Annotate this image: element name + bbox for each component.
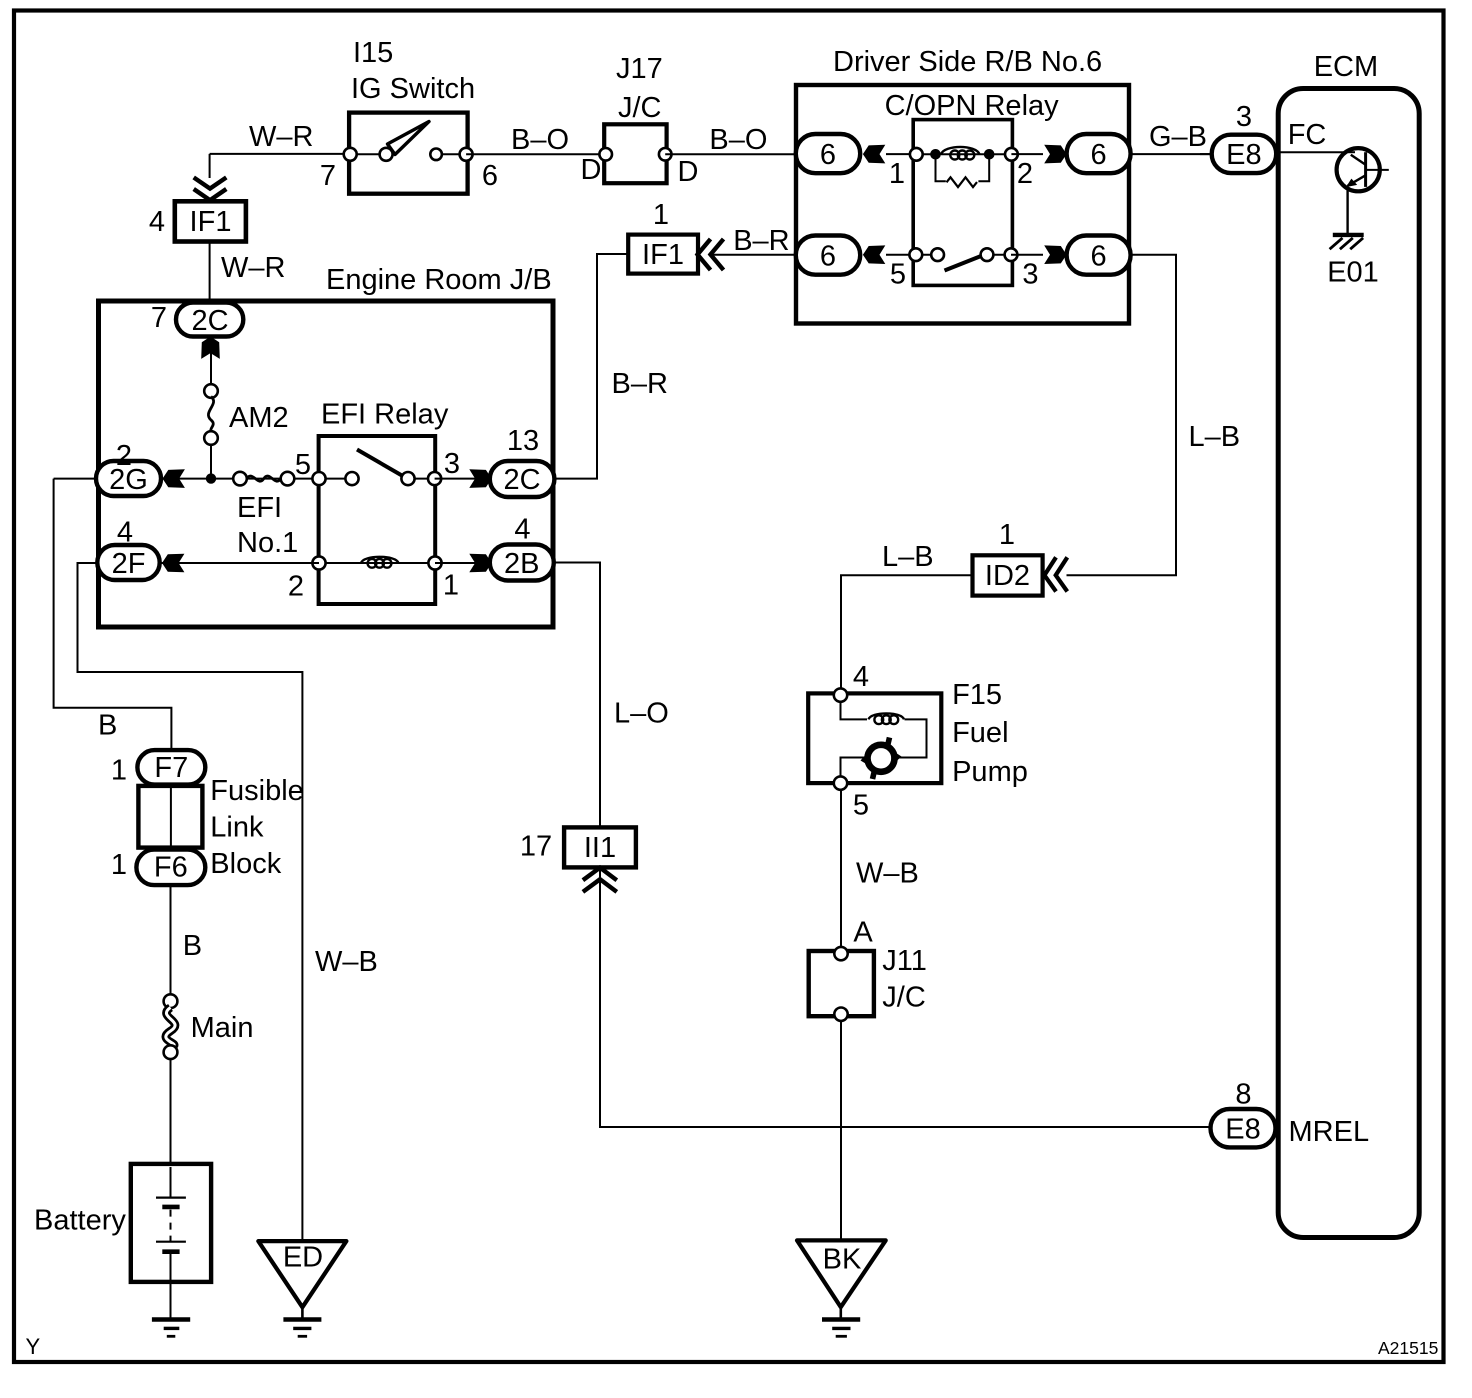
- connector 6 (bottom left): [796, 236, 860, 275]
- svg-text:F6: F6: [154, 852, 188, 884]
- Engine Room J/B box: [99, 264, 554, 627]
- svg-text:I15: I15: [353, 37, 393, 69]
- svg-text:J11: J11: [882, 945, 927, 977]
- svg-text:Block: Block: [210, 848, 281, 880]
- svg-text:IF1: IF1: [642, 239, 684, 271]
- arrow into 2B: [469, 554, 491, 573]
- svg-text:BK: BK: [823, 1244, 862, 1276]
- svg-text:2: 2: [288, 571, 304, 603]
- svg-text:1: 1: [111, 849, 127, 881]
- connector 2C pin 13: [490, 425, 555, 497]
- svg-text:3: 3: [444, 448, 460, 480]
- relay C/OPN Relay: [885, 90, 1060, 285]
- arrow into 6 bottom-right: [1044, 245, 1066, 264]
- wire L-B from relay to ID2: [1067, 255, 1177, 576]
- svg-text:J/C: J/C: [618, 92, 662, 124]
- svg-text:5: 5: [853, 790, 869, 822]
- svg-text:Engine Room J/B: Engine Room J/B: [326, 264, 552, 296]
- wire J11 to BK: [840, 1021, 842, 1241]
- arrow up into 2C: [201, 337, 220, 359]
- wire W-B from 2F to ED: [78, 563, 303, 1241]
- wire W-B pump to J11: [840, 790, 842, 947]
- wire arrow to coil pin 1: [886, 153, 916, 155]
- arrow into 6 top-right: [1044, 145, 1066, 164]
- svg-text:D: D: [581, 154, 602, 186]
- svg-text:E8: E8: [1225, 1114, 1260, 1146]
- connector IF1 pin 1 with chevrons: [628, 199, 723, 274]
- fuse EFI No.1: [233, 472, 298, 559]
- connector F7: [111, 750, 205, 786]
- wire relay pin1 to 2B: [435, 562, 490, 564]
- arrow into 2G: [163, 469, 185, 488]
- svg-text:ID2: ID2: [985, 560, 1030, 592]
- connector ID2 pin 1 with chevrons: [973, 519, 1068, 596]
- svg-text:5: 5: [295, 449, 311, 481]
- svg-text:B–R: B–R: [733, 225, 789, 257]
- wire 2G row: [54, 478, 319, 480]
- transistor FC driver: [1337, 148, 1389, 233]
- component F15 Fuel Pump: [808, 661, 1028, 822]
- coil circuit top row: [889, 147, 1033, 190]
- wire AM2 to junction: [210, 445, 212, 479]
- wire B-O J17 to relay block: [665, 153, 796, 155]
- svg-text:Driver Side R/B No.6: Driver Side R/B No.6: [833, 46, 1102, 78]
- svg-text:II1: II1: [584, 832, 616, 864]
- wire FC to transistor: [1280, 151, 1352, 153]
- svg-text:Y: Y: [26, 1334, 41, 1359]
- relay EFI Relay: [288, 399, 460, 605]
- connector E8 pin 8 MREL: [1211, 1079, 1370, 1149]
- svg-text:B–O: B–O: [709, 124, 767, 156]
- component Fusible Link Block: [138, 775, 303, 880]
- fuse AM2: [204, 384, 288, 445]
- svg-text:2: 2: [116, 440, 132, 472]
- arrow into 2C right: [469, 469, 491, 488]
- ECM box: [1278, 51, 1419, 1238]
- svg-text:W–B: W–B: [856, 858, 919, 890]
- svg-text:17: 17: [520, 831, 552, 863]
- svg-text:F15: F15: [952, 679, 1002, 711]
- svg-text:F7: F7: [154, 752, 188, 784]
- svg-text:G–B: G–B: [1149, 121, 1207, 153]
- wire arrow to switch pin5: [886, 254, 916, 256]
- connector E8 pin 3: [1200, 101, 1276, 173]
- connector 2C pin 7 (top): [151, 302, 243, 337]
- svg-text:ED: ED: [283, 1242, 323, 1274]
- connector 6 (top left): [796, 134, 860, 173]
- svg-text:E8: E8: [1226, 139, 1261, 171]
- wire W-R from IF1 riser to IG switch pin 7: [210, 154, 344, 178]
- wire L-O from 2B to II1 and MREL to E8: [554, 563, 1211, 1128]
- svg-text:MREL: MREL: [1289, 1116, 1370, 1148]
- connector 2G pin 2: [96, 440, 161, 496]
- svg-text:Link: Link: [210, 812, 264, 844]
- svg-text:6: 6: [820, 139, 836, 171]
- wire B from 2G to fusible link: [54, 479, 172, 751]
- relay block Driver Side R/B No.6: [796, 46, 1129, 324]
- svg-text:A: A: [853, 917, 873, 949]
- junction connector J17 J/C: [581, 53, 699, 188]
- svg-text:W–R: W–R: [221, 252, 285, 284]
- svg-text:W–R: W–R: [249, 121, 313, 153]
- svg-text:EFI Relay: EFI Relay: [321, 399, 449, 431]
- svg-text:Battery: Battery: [34, 1205, 126, 1237]
- svg-text:3: 3: [1236, 101, 1252, 133]
- svg-text:Main: Main: [191, 1012, 254, 1044]
- svg-text:B–O: B–O: [511, 124, 569, 156]
- svg-text:1: 1: [889, 158, 905, 190]
- svg-text:2B: 2B: [504, 548, 539, 580]
- wire W-R IF1 down to 2C: [209, 242, 211, 306]
- svg-text:7: 7: [320, 160, 336, 192]
- arrow into 2F: [162, 554, 184, 573]
- svg-text:4: 4: [149, 206, 165, 238]
- svg-text:1: 1: [999, 519, 1015, 551]
- ground symbol ED: [258, 1241, 346, 1336]
- svg-text:A21515: A21515: [1378, 1338, 1438, 1358]
- wire 2C to AM2: [210, 352, 212, 385]
- wire relay pin3 to 2C: [435, 478, 490, 480]
- svg-text:Fuel: Fuel: [952, 717, 1008, 749]
- svg-text:1: 1: [653, 199, 669, 231]
- svg-text:EFI: EFI: [237, 492, 282, 524]
- svg-text:6: 6: [1091, 241, 1107, 273]
- connector IF1 pin 4 with chevrons: [149, 177, 246, 241]
- svg-text:W–B: W–B: [315, 946, 378, 978]
- svg-text:2C: 2C: [191, 305, 228, 337]
- svg-text:4: 4: [117, 517, 133, 549]
- svg-text:L–B: L–B: [1189, 421, 1241, 453]
- wire L-B ID2 to fuel pump: [841, 575, 973, 689]
- svg-text:2F: 2F: [112, 548, 146, 580]
- svg-text:C/OPN Relay: C/OPN Relay: [885, 90, 1060, 122]
- svg-text:4: 4: [853, 661, 869, 693]
- wire switch pin3 to 6 oval: [1011, 254, 1043, 256]
- svg-text:B: B: [98, 710, 117, 742]
- wire G-B to ECM E8: [1131, 153, 1212, 155]
- svg-text:L–B: L–B: [882, 541, 934, 573]
- wire coil pin2 to 6 oval: [1011, 153, 1043, 155]
- svg-text:1: 1: [111, 755, 127, 787]
- ground battery: [152, 1320, 190, 1337]
- ground symbol BK: [797, 1240, 886, 1336]
- battery: [34, 1164, 211, 1318]
- svg-text:2C: 2C: [503, 464, 540, 496]
- connector 6 (bottom right): [1067, 236, 1131, 275]
- svg-text:D: D: [678, 156, 699, 188]
- arrow into 6 bottom-left: [863, 245, 885, 264]
- connector II1 pin 17 with chevrons: [520, 827, 636, 892]
- svg-text:B: B: [183, 930, 202, 962]
- svg-text:No.1: No.1: [237, 527, 298, 559]
- svg-text:E01: E01: [1327, 257, 1379, 289]
- wire B-R chevron to relay block: [711, 254, 796, 256]
- svg-text:AM2: AM2: [229, 402, 289, 434]
- connector F6: [111, 849, 205, 885]
- svg-text:4: 4: [514, 514, 530, 546]
- svg-text:IF1: IF1: [190, 206, 232, 238]
- svg-text:7: 7: [151, 302, 167, 334]
- svg-text:5: 5: [890, 259, 906, 291]
- connector 2F pin 4: [97, 517, 159, 581]
- junction connector J11 J/C: [809, 945, 927, 1021]
- connector 2B pin 4: [490, 514, 554, 581]
- svg-text:13: 13: [507, 425, 539, 457]
- svg-text:6: 6: [1091, 139, 1107, 171]
- svg-text:2: 2: [1017, 158, 1033, 190]
- svg-text:6: 6: [482, 160, 498, 192]
- fusible link Main: [164, 994, 254, 1059]
- wire B-O switch pin6 to J17: [466, 153, 606, 155]
- svg-text:Fusible: Fusible: [210, 775, 303, 807]
- svg-text:L–O: L–O: [614, 698, 669, 730]
- wire 2F row: [97, 562, 319, 564]
- connector 6 (top right): [1067, 134, 1131, 173]
- arrow into 6 top-left: [863, 145, 885, 164]
- svg-text:IG Switch: IG Switch: [351, 73, 475, 105]
- ground E01: [1327, 235, 1379, 289]
- svg-text:6: 6: [820, 241, 836, 273]
- svg-text:3: 3: [1022, 259, 1038, 291]
- svg-text:J/C: J/C: [882, 982, 926, 1014]
- wire 2C(13) right to B-R riser to IF1: [554, 254, 628, 479]
- svg-text:FC: FC: [1288, 119, 1327, 151]
- svg-text:8: 8: [1235, 1079, 1251, 1111]
- switch I15 IG Switch: [320, 37, 498, 194]
- svg-text:ECM: ECM: [1314, 51, 1378, 83]
- wire Main to battery: [170, 1059, 172, 1198]
- node junction AM2/2G: [206, 473, 216, 483]
- svg-text:B–R: B–R: [612, 368, 668, 400]
- svg-text:1: 1: [443, 570, 459, 602]
- wire B to Main fuse: [170, 885, 172, 995]
- switch contact bottom row: [890, 248, 1039, 290]
- svg-text:J17: J17: [616, 53, 663, 85]
- svg-text:Pump: Pump: [952, 756, 1028, 788]
